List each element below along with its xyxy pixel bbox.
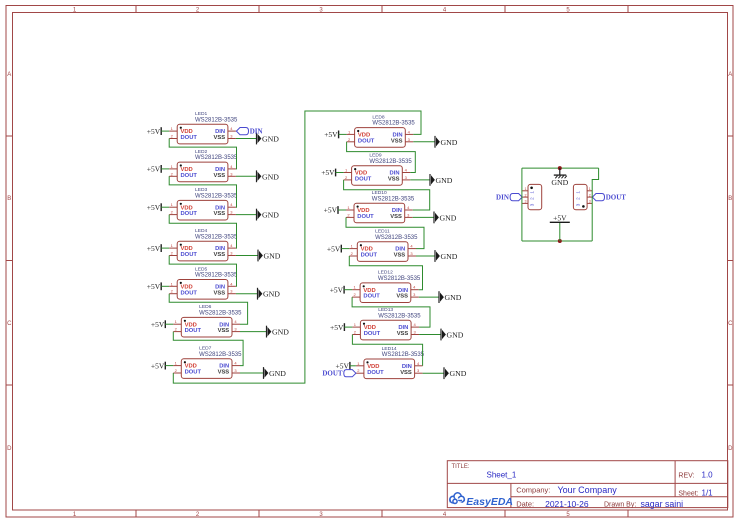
svg-text:LED8: LED8: [372, 114, 385, 120]
wire LED3.VSS to GND: [236, 214, 257, 216]
pin 2 DOUT of LED5: [169, 289, 197, 297]
wire +5V to LED11.VDD: [341, 248, 349, 250]
connector P1 (DIN header): [522, 184, 542, 209]
svg-text:DOUT: DOUT: [364, 331, 381, 337]
pin 2 DOUT of LED8: [347, 137, 375, 145]
wire +5V to LED3.VDD: [161, 206, 169, 208]
svg-text:WS2812B-3535: WS2812B-3535: [199, 311, 242, 317]
wire LED9.DOUT to LED10.DIN: [344, 180, 430, 210]
svg-text:WS2812B-3535: WS2812B-3535: [195, 234, 238, 240]
svg-text:DOUT: DOUT: [181, 173, 198, 179]
svg-text:WS2812B-3535: WS2812B-3535: [195, 194, 238, 200]
GND flag for LED9: [430, 174, 453, 186]
net flag DIN: [236, 128, 262, 136]
GND flag for LED6: [267, 326, 290, 338]
svg-text:DOUT: DOUT: [363, 294, 380, 300]
pin 2 DOUT of LED6: [173, 327, 201, 335]
svg-text:1: 1: [525, 187, 527, 191]
pin 2 DOUT of LED4: [169, 251, 197, 259]
pin 3 VSS of LED5: [213, 289, 235, 297]
+5V power flag at bottom rail: [550, 214, 570, 241]
pin 3 VSS of LED9: [388, 175, 410, 183]
pin 4 DIN of LED10: [392, 205, 413, 214]
svg-text:+5V: +5V: [147, 282, 161, 291]
svg-text:LED5: LED5: [195, 266, 208, 272]
body outline of LED11: [357, 242, 408, 262]
wire LED5.DOUT to LED6.DIN: [169, 294, 247, 325]
LED7 WS2812B-3535: [173, 346, 242, 379]
LED8 WS2812B-3535: [347, 114, 416, 147]
wire P2.1 to right rail: [591, 190, 594, 192]
pin 1 VDD of LED4: [169, 243, 193, 252]
body outline of LED5: [177, 280, 228, 300]
svg-text:3: 3: [589, 200, 591, 204]
wire +5V to LED7.VDD: [165, 365, 173, 367]
svg-text:LED10: LED10: [372, 190, 387, 196]
wire LED2.VSS to GND: [236, 175, 257, 177]
svg-text:GND: GND: [447, 331, 464, 340]
svg-text:VSS: VSS: [213, 173, 225, 179]
wire LED6.DOUT to LED7.DIN: [173, 332, 243, 366]
svg-text:WS2812B-3535: WS2812B-3535: [378, 313, 421, 319]
LED12 WS2812B-3535: [352, 270, 421, 303]
wire LED9.VSS to GND: [410, 179, 430, 181]
pin 3 VSS of LED2: [213, 171, 235, 179]
svg-text:VSS: VSS: [397, 331, 409, 337]
+5V power flag for LED4: [147, 244, 161, 253]
GND flag for LED4: [258, 250, 281, 262]
GND flag for LED2: [257, 170, 280, 182]
pin 2 DOUT of LED2: [169, 171, 197, 179]
pin 3 VSS of LED11: [394, 251, 416, 259]
wire +5V to LED12.VDD: [344, 289, 352, 291]
svg-text:GND: GND: [450, 369, 467, 378]
svg-text:A: A: [728, 72, 732, 78]
svg-text:Company:: Company:: [516, 486, 550, 495]
+5V power flag for LED10: [324, 206, 338, 215]
svg-text:+5V: +5V: [147, 127, 161, 136]
svg-text:Drawn By:: Drawn By:: [604, 502, 636, 509]
svg-text:Your Company: Your Company: [558, 485, 618, 495]
svg-text:LED1: LED1: [195, 111, 208, 117]
+5V power flag for LED9: [321, 168, 335, 177]
net flag DOUT: [322, 370, 356, 378]
pin 3 VSS of LED12: [396, 292, 418, 300]
svg-text:GND: GND: [269, 369, 286, 378]
pin 2 DOUT of LED13: [352, 330, 380, 338]
wire LED4.VSS to GND: [236, 255, 258, 257]
body outline of LED6: [181, 317, 232, 337]
svg-text:+5V: +5V: [330, 323, 344, 332]
svg-text:GND: GND: [436, 176, 453, 185]
svg-text:3: 3: [525, 200, 527, 204]
wire LED13.VSS to GND: [419, 334, 441, 336]
GND flag for LED7: [264, 367, 287, 379]
GND flag for LED1: [257, 133, 280, 145]
svg-text:DOUT: DOUT: [606, 194, 627, 202]
+5V power flag for LED7: [151, 361, 165, 370]
net flag DIN: [496, 194, 522, 202]
pin 3 VSS of LED4: [213, 251, 235, 259]
pin 1 VDD of LED9: [344, 168, 368, 177]
svg-text:WS2812B-3535: WS2812B-3535: [195, 155, 238, 161]
wire P2.3 to right rail: [591, 202, 594, 204]
svg-text:VSS: VSS: [391, 138, 403, 144]
LED3 WS2812B-3535: [169, 187, 238, 220]
svg-text:DOUT: DOUT: [361, 253, 378, 259]
svg-text:VSS: VSS: [213, 135, 225, 141]
wire LED4.DOUT to LED5.DIN: [169, 256, 236, 287]
svg-text:+5V: +5V: [330, 285, 344, 294]
pin 3 VSS of LED14: [400, 368, 422, 376]
pin 1 of P2: [576, 187, 593, 194]
svg-text:GND: GND: [262, 135, 279, 144]
body outline of LED1: [177, 124, 228, 144]
svg-text:+5V: +5V: [324, 206, 338, 215]
svg-text:WS2812B-3535: WS2812B-3535: [378, 276, 421, 282]
svg-text:VSS: VSS: [400, 370, 412, 376]
svg-text:+5V: +5V: [327, 244, 341, 253]
svg-text:GND: GND: [262, 172, 279, 181]
pin 1 VDD of LED13: [352, 322, 376, 331]
pin 4 DIN of LED1: [215, 126, 236, 135]
GND flag for LED11: [435, 250, 458, 262]
svg-text:2: 2: [589, 193, 591, 197]
LED9 WS2812B-3535: [344, 153, 413, 186]
wire +5V to LED14.VDD: [350, 365, 356, 367]
svg-text:3: 3: [530, 203, 535, 206]
title block: [447, 461, 728, 509]
svg-text:1: 1: [576, 191, 581, 194]
svg-text:Date:: Date:: [516, 500, 534, 509]
svg-text:2: 2: [525, 193, 527, 197]
+5V power flag for LED3: [147, 203, 161, 212]
svg-text:GND: GND: [441, 138, 458, 147]
svg-text:GND: GND: [441, 252, 458, 261]
svg-text:+5V: +5V: [151, 361, 165, 370]
svg-text:3: 3: [576, 203, 581, 206]
pin 2 of P2: [576, 193, 593, 200]
svg-text:1: 1: [589, 187, 591, 191]
svg-text:VSS: VSS: [388, 177, 400, 183]
svg-text:LED12: LED12: [378, 270, 393, 276]
svg-text:Sheet_1: Sheet_1: [487, 471, 517, 480]
body outline of LED2: [177, 162, 228, 182]
svg-text:DOUT: DOUT: [322, 370, 343, 378]
wire LED7.DOUT to LED8.DIN: [173, 111, 421, 383]
svg-text:LED13: LED13: [378, 307, 393, 313]
body outline of LED12: [360, 283, 411, 303]
pin 1 VDD of LED5: [169, 281, 193, 290]
wire +5V to LED1.VDD: [161, 130, 169, 132]
pin 4 DIN of LED4: [215, 243, 236, 252]
svg-text:REV:: REV:: [678, 472, 694, 479]
svg-text:1: 1: [530, 191, 535, 194]
pin 4 DIN of LED9: [390, 168, 411, 177]
pin 1 VDD of LED11: [349, 244, 373, 253]
svg-text:2021-10-26: 2021-10-26: [545, 499, 589, 509]
+5V power flag for LED8: [324, 130, 338, 139]
wire +5V to LED5.VDD: [161, 285, 169, 287]
pin 1 VDD of LED12: [352, 285, 376, 294]
pin 2 DOUT of LED10: [346, 212, 374, 220]
pin 2 of P1: [522, 193, 534, 200]
svg-text:LED3: LED3: [195, 187, 208, 193]
+5V power flag for LED5: [147, 282, 161, 291]
svg-text:DOUT: DOUT: [181, 135, 198, 141]
pin 4 DIN of LED11: [395, 244, 416, 253]
wire LED11.VSS to GND: [416, 255, 435, 257]
svg-text:DOUT: DOUT: [367, 370, 384, 376]
svg-text:DOUT: DOUT: [355, 177, 372, 183]
svg-text:VSS: VSS: [396, 294, 408, 300]
svg-text:LED11: LED11: [375, 229, 390, 235]
wire +5V to LED9.VDD: [336, 172, 344, 174]
body outline of LED13: [360, 320, 411, 340]
svg-text:DOUT: DOUT: [357, 214, 374, 220]
wire LED14.VSS to GND: [423, 372, 444, 374]
svg-text:EasyEDA: EasyEDA: [466, 496, 513, 508]
svg-text:VSS: VSS: [213, 252, 225, 258]
pin 1 VDD of LED7: [173, 361, 197, 370]
junction on top rail: [558, 166, 562, 170]
svg-text:WS2812B-3535: WS2812B-3535: [375, 235, 418, 241]
wire LED12.DOUT to LED13.DIN: [352, 297, 430, 327]
pin 1 VDD of LED3: [169, 202, 193, 211]
pin 4 DIN of LED5: [215, 281, 236, 290]
pin 1 VDD of LED1: [169, 126, 193, 135]
svg-text:DOUT: DOUT: [185, 328, 202, 334]
pin 2 DOUT of LED11: [349, 251, 377, 259]
pin 1 VDD of LED14: [356, 361, 380, 370]
connector P2 (DOUT header): [573, 184, 592, 209]
wire LED1.DOUT to LED2.DIN: [169, 139, 236, 169]
+5V power flag for LED11: [327, 244, 341, 253]
pin 2 DOUT of LED7: [173, 368, 201, 376]
svg-text:+5V: +5V: [553, 214, 567, 223]
pin 3 VSS of LED3: [213, 210, 235, 218]
wire right rail down: [592, 168, 598, 241]
LED11 WS2812B-3535: [349, 229, 418, 262]
svg-text:B: B: [728, 196, 732, 202]
svg-text:GND: GND: [263, 290, 280, 299]
wire LED3.DOUT to LED4.DIN: [169, 215, 236, 249]
body outline of LED9: [352, 166, 403, 186]
wire LED7.VSS to GND: [240, 372, 264, 374]
svg-text:TITLE:: TITLE:: [452, 464, 470, 470]
svg-text:WS2812B-3535: WS2812B-3535: [372, 121, 415, 127]
+5V power flag for LED13: [330, 323, 344, 332]
svg-text:A: A: [7, 72, 11, 78]
pin 4 DIN of LED13: [398, 322, 419, 331]
svg-text:LED2: LED2: [195, 149, 208, 155]
+5V power flag for LED1: [147, 127, 161, 136]
body outline of P1: [528, 184, 542, 209]
pin 4 DIN of LED7: [219, 361, 240, 370]
EasyEDA logo: [450, 493, 513, 508]
body outline of LED10: [354, 203, 405, 223]
svg-text:+5V: +5V: [321, 168, 335, 177]
pin 1 VDD of LED2: [169, 164, 193, 173]
+5V power flag for LED14: [335, 362, 349, 371]
wire LED10.VSS to GND: [413, 216, 434, 218]
svg-text:DOUT: DOUT: [185, 370, 202, 376]
svg-text:sagar saini: sagar saini: [641, 499, 684, 509]
body outline of LED4: [177, 241, 228, 261]
svg-text:DOUT: DOUT: [181, 252, 198, 258]
pin 1 VDD of LED6: [173, 319, 197, 328]
svg-text:GND: GND: [262, 211, 279, 220]
wire LED10.DOUT to LED11.DIN: [346, 217, 424, 248]
svg-text:+5V: +5V: [147, 165, 161, 174]
pin 3 VSS of LED8: [391, 137, 413, 145]
svg-text:DOUT: DOUT: [181, 211, 198, 217]
LED2 WS2812B-3535: [169, 149, 238, 182]
pin 2 DOUT of LED1: [169, 134, 197, 142]
pin 4 DIN of LED12: [398, 285, 419, 294]
svg-text:2: 2: [530, 197, 535, 200]
wire +5V to LED6.VDD: [165, 323, 173, 325]
svg-text:Sheet:: Sheet:: [678, 490, 698, 497]
pin 1 of P1: [522, 187, 534, 194]
svg-text:WS2812B-3535: WS2812B-3535: [372, 196, 415, 202]
svg-text:+5V: +5V: [324, 130, 338, 139]
svg-text:WS2812B-3535: WS2812B-3535: [195, 117, 238, 123]
svg-text:VSS: VSS: [213, 211, 225, 217]
pin 3 of P2: [576, 200, 593, 207]
LED4 WS2812B-3535: [169, 228, 238, 261]
svg-text:D: D: [728, 446, 733, 452]
pin 4 DIN of LED2: [215, 164, 236, 173]
wire top rail GND: [522, 167, 599, 169]
svg-text:+5V: +5V: [147, 203, 161, 212]
wire +5V to LED8.VDD: [339, 133, 347, 135]
wire LED12.VSS to GND: [419, 296, 439, 298]
pin 3 of P1: [522, 200, 534, 207]
pin 4 DIN of LED8: [393, 129, 414, 138]
wire +5V to LED10.VDD: [338, 209, 346, 211]
pin 3 VSS of LED7: [218, 368, 240, 376]
pin 1 VDD of LED10: [346, 205, 370, 214]
LED6 WS2812B-3535: [173, 304, 242, 337]
+5V power flag for LED2: [147, 165, 161, 174]
wire left rail vertical: [521, 168, 523, 241]
svg-text:LED4: LED4: [195, 228, 208, 234]
pin 3 VSS of LED13: [397, 330, 419, 338]
body outline of LED14: [364, 359, 415, 379]
svg-text:VSS: VSS: [218, 370, 230, 376]
svg-text:WS2812B-3535: WS2812B-3535: [382, 352, 425, 358]
svg-text:+5V: +5V: [151, 320, 165, 329]
wire +5V to LED13.VDD: [344, 326, 352, 328]
svg-text:D: D: [7, 446, 12, 452]
wire LED8.VSS to GND: [413, 141, 435, 143]
wire +5V to LED2.VDD: [161, 168, 169, 170]
svg-text:GND: GND: [272, 328, 289, 337]
svg-text:C: C: [7, 321, 12, 327]
svg-text:+5V: +5V: [147, 244, 161, 253]
svg-text:VSS: VSS: [394, 253, 406, 259]
wire LED5.VSS to GND: [236, 293, 258, 295]
pin 4 DIN of LED3: [215, 202, 236, 211]
pin 2 DOUT of LED3: [169, 210, 197, 218]
svg-text:LED6: LED6: [199, 304, 212, 310]
pin 4 DIN of LED14: [402, 361, 423, 370]
LED5 WS2812B-3535: [169, 266, 238, 299]
wire bottom rail +5V: [522, 240, 592, 242]
svg-text:LED9: LED9: [369, 153, 382, 159]
pin 2 DOUT of LED12: [352, 292, 380, 300]
net flag DOUT: [592, 194, 626, 202]
pin 3 VSS of LED6: [218, 327, 240, 335]
svg-text:DIN: DIN: [250, 128, 263, 136]
GND flag for LED5: [258, 288, 281, 300]
svg-text:LED7: LED7: [199, 346, 212, 352]
wire +5V to LED4.VDD: [161, 247, 169, 249]
svg-text:2: 2: [576, 197, 581, 200]
svg-text:WS2812B-3535: WS2812B-3535: [195, 273, 238, 279]
pin 2 DOUT of LED14: [356, 368, 384, 376]
body outline of P2: [573, 184, 587, 209]
wire LED11.DOUT to LED12.DIN: [349, 256, 422, 290]
svg-text:VSS: VSS: [390, 214, 402, 220]
svg-text:LED14: LED14: [382, 346, 397, 352]
pin 2 DOUT of LED9: [344, 175, 372, 183]
svg-text:GND: GND: [445, 293, 462, 302]
GND flag for LED13: [441, 329, 464, 341]
svg-text:1.0: 1.0: [702, 470, 714, 479]
+5V power flag for LED6: [151, 320, 165, 329]
pin 1 VDD of LED8: [347, 129, 371, 138]
junction on bottom rail: [558, 239, 562, 243]
GND flag for LED12: [439, 291, 462, 303]
LED14 WS2812B-3535: [356, 346, 425, 379]
wire LED8.DOUT to LED9.DIN: [347, 142, 416, 173]
svg-text:GND: GND: [264, 252, 281, 261]
pin 4 DIN of LED6: [219, 319, 240, 328]
LED13 WS2812B-3535: [352, 307, 421, 340]
GND flag for LED14: [444, 367, 467, 379]
svg-text:DOUT: DOUT: [181, 290, 198, 296]
svg-text:C: C: [728, 321, 733, 327]
wire LED13.DOUT to LED14.DIN: [352, 335, 422, 366]
svg-text:VSS: VSS: [213, 290, 225, 296]
body outline of LED8: [355, 128, 406, 148]
GND flag for LED3: [257, 209, 280, 221]
wire LED2.DOUT to LED3.DIN: [169, 176, 236, 207]
svg-text:DIN: DIN: [496, 194, 509, 202]
svg-text:GND: GND: [440, 213, 457, 222]
GND flag for LED8: [435, 136, 458, 148]
svg-text:WS2812B-3535: WS2812B-3535: [369, 159, 412, 165]
wire LED6.VSS to GND: [240, 331, 267, 333]
pin 3 VSS of LED1: [213, 134, 235, 142]
wire LED1.VSS to GND: [236, 138, 257, 140]
LED1 WS2812B-3535: [169, 111, 238, 144]
body outline of LED3: [177, 200, 228, 220]
svg-text:GND: GND: [551, 178, 568, 187]
GND earth symbol at top rail: [551, 168, 568, 187]
LED10 WS2812B-3535: [346, 190, 415, 223]
GND flag for LED10: [434, 212, 457, 224]
body outline of LED7: [181, 359, 232, 379]
svg-text:VSS: VSS: [218, 328, 230, 334]
pin 3 VSS of LED10: [390, 212, 412, 220]
svg-text:WS2812B-3535: WS2812B-3535: [199, 352, 242, 358]
svg-text:1/1: 1/1: [702, 488, 714, 497]
svg-text:DOUT: DOUT: [358, 138, 375, 144]
svg-text:B: B: [7, 196, 11, 202]
